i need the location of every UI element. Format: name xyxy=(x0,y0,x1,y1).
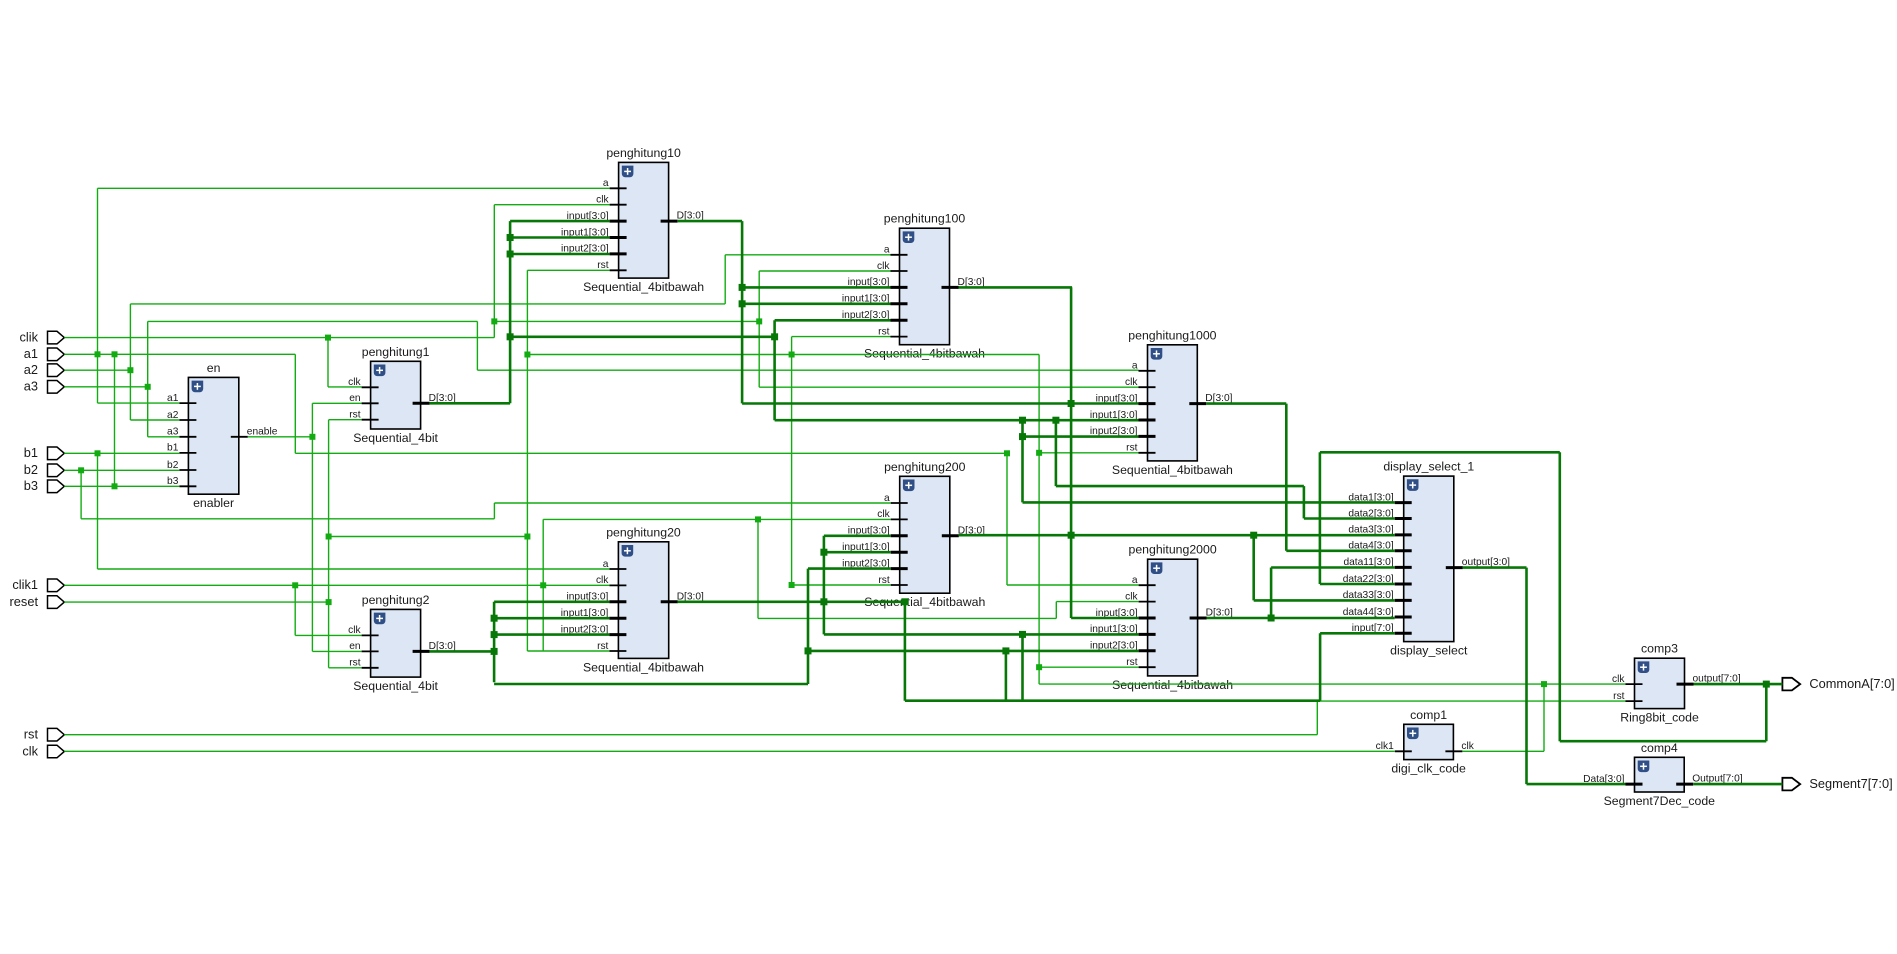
svg-text:Sequential_4bitbawah: Sequential_4bitbawah xyxy=(583,660,704,674)
block penghitung200 (Sequential_4bitbawah) xyxy=(842,460,985,609)
block penghitung2 (Sequential_4bit) xyxy=(348,593,456,693)
wire bus comp4 Output to Segment7 xyxy=(1693,783,1782,786)
wire net b1 xyxy=(64,452,179,454)
svg-text:b1: b1 xyxy=(167,443,179,454)
wire bus D1000 penghitung1000 xyxy=(1206,402,1286,405)
svg-text:clk: clk xyxy=(1461,741,1474,752)
svg-text:enabler: enabler xyxy=(193,496,234,510)
port reset xyxy=(10,594,65,609)
svg-text:comp1: comp1 xyxy=(1410,708,1447,722)
wire bus D2000 penghitung2000 xyxy=(1207,617,1395,620)
svg-text:en: en xyxy=(349,641,360,652)
block penghitung1000 (Sequential_4bitbawah) xyxy=(1090,328,1233,477)
svg-text:Sequential_4bit: Sequential_4bit xyxy=(353,679,438,693)
block penghitung2000 (Sequential_4bitbawah) xyxy=(1090,543,1233,692)
svg-text:a: a xyxy=(603,559,609,570)
svg-text:clk: clk xyxy=(1125,377,1138,388)
svg-text:penghitung100: penghitung100 xyxy=(884,212,966,226)
svg-text:rst: rst xyxy=(597,641,608,652)
wire bus D1 penghitung1 xyxy=(430,402,511,405)
svg-text:comp3: comp3 xyxy=(1641,642,1678,656)
port b2 xyxy=(24,462,65,477)
wire net b2 xyxy=(64,469,179,471)
svg-text:rst: rst xyxy=(1613,691,1624,702)
svg-text:b1: b1 xyxy=(24,445,38,460)
svg-text:a3: a3 xyxy=(167,427,179,438)
svg-text:clk: clk xyxy=(596,575,609,586)
wire bus D100 penghitung100 xyxy=(959,286,1073,289)
wire bus D20 penghitung20 xyxy=(677,600,905,603)
svg-text:CommonA[7:0]: CommonA[7:0] xyxy=(1809,676,1894,691)
wire net b3 xyxy=(64,485,179,487)
svg-text:penghitung20: penghitung20 xyxy=(606,525,681,539)
svg-text:a: a xyxy=(884,493,890,504)
svg-text:a1: a1 xyxy=(167,393,179,404)
svg-text:clk1: clk1 xyxy=(1376,741,1394,752)
svg-text:b3: b3 xyxy=(24,478,38,493)
svg-text:Segment7[7:0]: Segment7[7:0] xyxy=(1809,776,1892,791)
wire net clik xyxy=(64,337,494,339)
wire bus D2 penghitung2 xyxy=(430,650,495,653)
svg-text:rst: rst xyxy=(1126,657,1137,668)
svg-text:penghitung2: penghitung2 xyxy=(362,593,430,607)
block comp4 (Segment7Dec_code) xyxy=(1583,741,1743,808)
svg-text:a1: a1 xyxy=(24,346,38,361)
port clik xyxy=(20,329,65,344)
port rst xyxy=(24,727,65,742)
svg-text:display_select: display_select xyxy=(1390,644,1468,658)
svg-text:rst: rst xyxy=(878,575,889,586)
svg-text:data44[3:0]: data44[3:0] xyxy=(1343,607,1394,618)
svg-text:a2: a2 xyxy=(24,362,38,377)
svg-text:b3: b3 xyxy=(167,476,179,487)
svg-text:clik: clik xyxy=(20,329,39,344)
port a3 xyxy=(24,379,65,394)
wire net reset xyxy=(64,601,328,603)
port clk xyxy=(22,743,64,758)
svg-text:Segment7Dec_code: Segment7Dec_code xyxy=(1604,794,1716,808)
wire net rst port to comp3 xyxy=(64,734,1317,736)
svg-text:clk: clk xyxy=(22,743,38,758)
svg-text:rst: rst xyxy=(24,727,39,742)
svg-text:a: a xyxy=(603,178,609,189)
wire net a2 xyxy=(64,369,130,371)
svg-text:clk: clk xyxy=(1125,591,1138,602)
svg-text:b2: b2 xyxy=(167,460,179,471)
svg-text:clk: clk xyxy=(877,261,890,272)
svg-text:rst: rst xyxy=(349,410,360,421)
port clik1 xyxy=(12,577,64,592)
wire net comp1 clk out xyxy=(1462,750,1544,752)
svg-text:clik1: clik1 xyxy=(12,577,38,592)
svg-text:a2: a2 xyxy=(167,410,179,421)
port Segment7[7:0] xyxy=(1782,776,1892,791)
block comp1 (digi_clk_code) xyxy=(1376,708,1475,776)
svg-text:clk: clk xyxy=(877,509,890,520)
svg-text:comp4: comp4 xyxy=(1641,741,1678,755)
wire bus comp3 output to CommonA xyxy=(1694,683,1783,686)
wire net a3 xyxy=(64,386,147,388)
port b3 xyxy=(24,478,65,493)
svg-text:display_select_1: display_select_1 xyxy=(1383,460,1474,474)
port a1 xyxy=(24,346,65,361)
port b1 xyxy=(24,445,65,460)
wire net clk port to comp1 xyxy=(64,750,1395,752)
block penghitung20 (Sequential_4bitbawah) xyxy=(561,525,704,674)
wire bus CommonA feedback to data22 xyxy=(1320,451,1560,454)
wire net a1 xyxy=(64,353,295,355)
svg-text:reset: reset xyxy=(10,594,39,609)
svg-text:clk: clk xyxy=(596,195,609,206)
block en (enabler) xyxy=(167,361,278,510)
svg-text:rst: rst xyxy=(349,658,360,669)
svg-text:penghitung1: penghitung1 xyxy=(362,345,430,359)
svg-text:a3: a3 xyxy=(24,379,38,394)
svg-text:penghitung1000: penghitung1000 xyxy=(1128,328,1216,342)
wire net enable xyxy=(248,436,313,438)
port a2 xyxy=(24,362,65,377)
port CommonA[7:0] xyxy=(1782,676,1894,691)
svg-text:penghitung200: penghitung200 xyxy=(884,460,966,474)
wire net clik1 xyxy=(64,584,609,586)
svg-text:enable: enable xyxy=(247,426,278,437)
svg-text:penghitung10: penghitung10 xyxy=(606,146,681,160)
wire bus D10 penghitung10 xyxy=(678,220,742,223)
svg-text:clk: clk xyxy=(1612,674,1625,685)
svg-text:Sequential_4bitbawah: Sequential_4bitbawah xyxy=(1112,678,1233,692)
svg-text:digi_clk_code: digi_clk_code xyxy=(1391,762,1466,776)
svg-text:en: en xyxy=(207,361,221,375)
svg-text:rst: rst xyxy=(597,260,608,271)
wire bus D200 penghitung200 xyxy=(959,534,1395,537)
svg-text:rst: rst xyxy=(1126,443,1137,454)
svg-text:Sequential_4bit: Sequential_4bit xyxy=(353,431,438,445)
wire net rst distribution xyxy=(526,270,528,651)
block penghitung10 (Sequential_4bitbawah) xyxy=(561,146,704,294)
svg-text:b2: b2 xyxy=(24,462,38,477)
svg-text:Sequential_4bitbawah: Sequential_4bitbawah xyxy=(583,280,704,294)
block penghitung100 (Sequential_4bitbawah) xyxy=(842,212,985,361)
block comp3 (Ring8bit_code) xyxy=(1612,642,1741,725)
svg-text:penghitung2000: penghitung2000 xyxy=(1128,543,1216,557)
svg-text:Sequential_4bitbawah: Sequential_4bitbawah xyxy=(1112,463,1233,477)
svg-text:a: a xyxy=(884,245,890,256)
block display_select_1 (display_select) xyxy=(1343,460,1510,658)
svg-text:clk: clk xyxy=(348,625,361,636)
svg-text:en: en xyxy=(349,393,360,404)
svg-text:Sequential_4bitbawah: Sequential_4bitbawah xyxy=(864,347,985,361)
wire bus display output xyxy=(1463,566,1527,569)
svg-text:Ring8bit_code: Ring8bit_code xyxy=(1620,711,1699,725)
block penghitung1 (Sequential_4bit) xyxy=(348,345,456,445)
svg-text:rst: rst xyxy=(878,326,889,337)
